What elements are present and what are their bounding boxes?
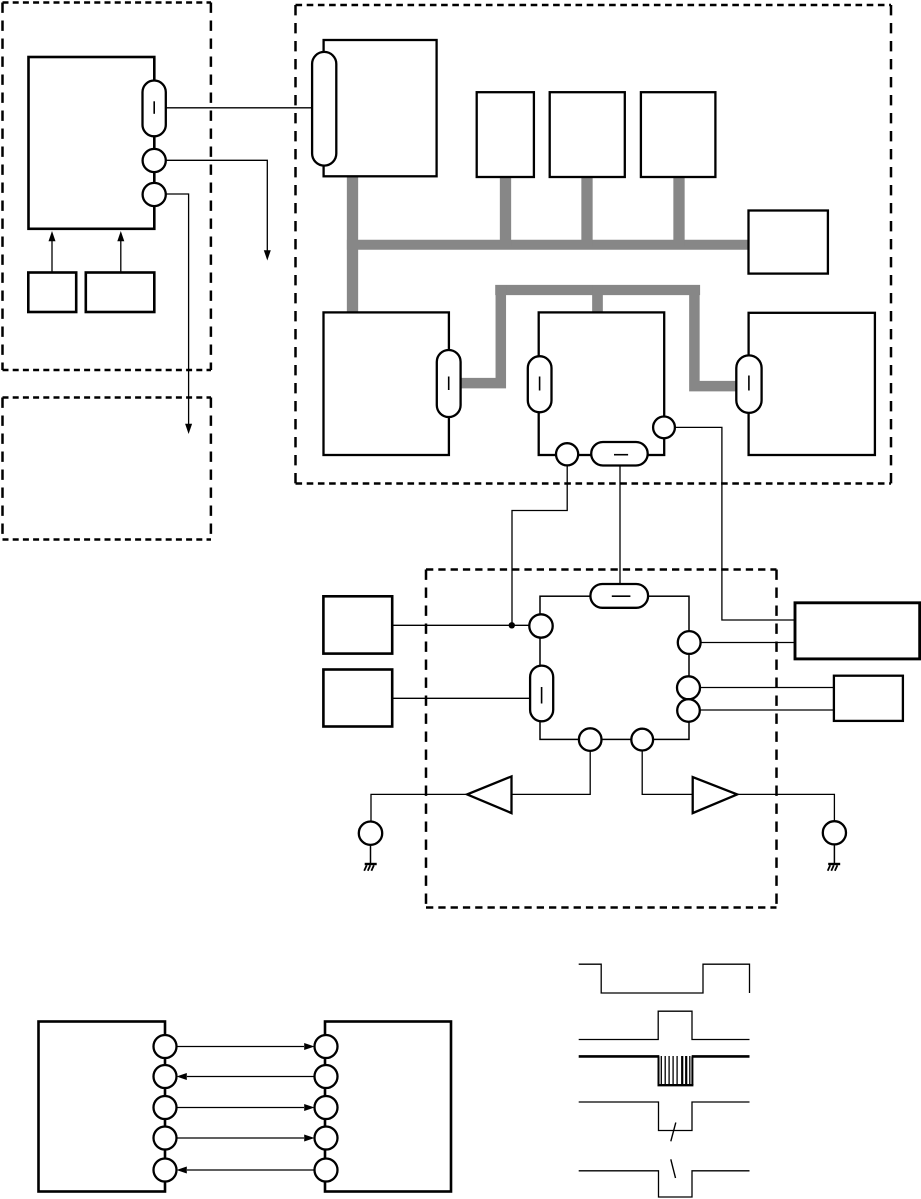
- wire H1b to G left pill: [392, 697, 530, 699]
- port circle G bottom 2: [631, 729, 653, 751]
- port circle J1-5: [154, 1159, 177, 1182]
- wire arrow Q1 to P: [51, 241, 53, 273]
- amplifier left (triangle pointing left): [467, 776, 511, 813]
- wire E right circle to box H2: [675, 427, 795, 620]
- ground stem right: [833, 844, 835, 863]
- ground symbol right: [828, 863, 840, 865]
- bus 2 horizontal (gray): [495, 285, 700, 295]
- wire G right circle2 to box I: [700, 687, 834, 689]
- tick in G top pill: [612, 595, 631, 597]
- ground stem left: [370, 845, 372, 863]
- box E (region 2 lower-middle block): [539, 312, 665, 455]
- waveform 5 slash: [671, 1159, 676, 1178]
- connector pill on P right edge: [143, 81, 166, 137]
- wire left amplifier to left ground circle: [371, 794, 467, 821]
- connector pill on G top edge: [590, 584, 648, 608]
- port circle J1-3: [154, 1096, 177, 1119]
- port circle J2-2: [315, 1065, 338, 1088]
- box G (region 3 central block): [540, 596, 689, 739]
- port circle J1-1: [154, 1035, 177, 1058]
- connector pill on E bottom edge: [591, 442, 648, 466]
- bus stub A to D (gray): [347, 176, 358, 313]
- box H1b: [323, 670, 392, 727]
- wire H1a to G junction: [392, 624, 529, 626]
- signal line 5 (left arrow): [187, 1169, 315, 1171]
- port circle 1 on P right edge: [143, 149, 166, 172]
- waveform 1 (clock): [579, 964, 750, 993]
- wire right amplifier to right ground circle: [737, 794, 834, 821]
- waveform 3 thick hatch bars: [682, 1056, 686, 1084]
- box A (region 2 top block): [324, 40, 437, 176]
- box P (top-left large block): [29, 57, 155, 229]
- amplifier right (triangle pointing right): [693, 777, 738, 813]
- dashed region 3 (middle subsystem boundary): [426, 570, 777, 908]
- box F (region 2 lower-right block): [749, 313, 875, 455]
- tick in D pill: [448, 377, 450, 391]
- wire G bottom circle1 to left amplifier: [512, 751, 590, 795]
- tick in E bottom pill: [614, 454, 628, 456]
- waveform 2 (pulse): [579, 1011, 750, 1039]
- waveform 3 pulse edge left: [659, 1056, 693, 1085]
- signal line 2 (left arrow): [187, 1076, 315, 1078]
- connector pill on E left edge: [528, 356, 552, 412]
- arrowhead right row1: [304, 1043, 314, 1050]
- arrowhead down at (267,260): [264, 250, 271, 260]
- waveform 4 slash: [671, 1123, 676, 1142]
- tick in F pill: [748, 376, 750, 391]
- waveform 3 pulse bottom: [658, 1084, 694, 1086]
- tick in G left pill: [541, 687, 543, 704]
- port circle J1-4: [154, 1127, 177, 1150]
- junction dot: [509, 622, 515, 628]
- connector pill on G left edge: [530, 666, 553, 722]
- waveform 4 (negative pulse with rising slash): [579, 1102, 750, 1131]
- wire G bottom circle2 to right amplifier: [642, 751, 693, 795]
- port circle G right 2: [677, 676, 700, 699]
- tick in E left pill: [539, 377, 541, 391]
- wire P circle2 into region 1b with down arrow: [166, 194, 189, 425]
- wire G right circle1 to box H2: [701, 642, 795, 644]
- wire P pill to A pill: [166, 107, 312, 109]
- ground symbol left: [365, 863, 377, 865]
- signal line 3 (right arrow): [177, 1107, 305, 1109]
- waveform 3 thick data line with negative pulse: [579, 1055, 750, 1058]
- wire G right circle3 to box I: [700, 709, 834, 711]
- signal line 4 (right arrow): [177, 1137, 305, 1139]
- arrowhead up at (52,231): [49, 231, 56, 241]
- port circle on E bottom edge: [556, 443, 578, 465]
- bus stub B1 (gray): [500, 176, 511, 246]
- bus 2 middle stub to E (gray): [592, 285, 603, 318]
- box H1a: [323, 596, 392, 653]
- box B2: [550, 92, 625, 177]
- bus 2 right elbow to F pill (gray): [694, 285, 736, 391]
- port circle G right 3: [677, 699, 700, 722]
- ground circle right: [823, 821, 846, 844]
- waveform 3 hatched transition bars: [661, 1056, 690, 1084]
- signal line 1 (right arrow): [177, 1046, 305, 1048]
- port circle J2-4: [315, 1127, 338, 1150]
- dashed region 2 (top-right subsystem boundary): [296, 5, 892, 484]
- arrowhead right row3: [304, 1104, 314, 1111]
- waveform 5 (negative pulse with falling slash): [579, 1171, 750, 1197]
- wire E bottom pill down to G top pill: [619, 466, 621, 585]
- port circle on E right edge: [653, 417, 675, 439]
- dashed region 1 (top-left subsystem boundary): [3, 3, 212, 371]
- arrowhead up at (120.8,231): [117, 231, 124, 241]
- port circle G right 1: [678, 631, 701, 654]
- box D (region 2 lower-left block): [324, 312, 449, 455]
- bus stub B2 (gray): [581, 176, 592, 246]
- arrowhead left row5: [177, 1167, 187, 1174]
- dashed region 1b (lower-left subsystem boundary): [3, 398, 212, 540]
- connector pill on F left edge: [736, 355, 761, 413]
- box Q2: [86, 273, 155, 313]
- bus 1 horizontal (gray): [347, 240, 749, 250]
- arrowhead down at (188.6,434): [185, 424, 192, 434]
- connector pill on D right edge: [437, 350, 461, 417]
- port circle J2-3: [315, 1096, 338, 1119]
- tick in P pill: [153, 101, 155, 114]
- wire arrow Q2 to P: [120, 241, 122, 273]
- wire E bottom circle to junction: [512, 465, 567, 625]
- port circle J2-5: [315, 1159, 338, 1182]
- box B3: [641, 92, 716, 177]
- wire P circle1 with down arrow: [166, 160, 267, 251]
- box H2 (right output block upper): [795, 603, 920, 659]
- port circle J2-1: [315, 1035, 338, 1058]
- box C (bus1 right terminal): [749, 211, 828, 274]
- port circle G top-left: [529, 614, 552, 637]
- connector pill on A left edge: [312, 52, 336, 166]
- bus 2 left elbow to D pill (gray): [461, 285, 501, 388]
- arrowhead left row2: [177, 1073, 187, 1080]
- box I (right output block lower): [834, 676, 903, 721]
- bus stub B3 (gray): [673, 176, 684, 246]
- box J2 (bottom-right block): [325, 1022, 451, 1192]
- port circle 2 on P right edge: [143, 183, 166, 206]
- box B1: [477, 92, 534, 177]
- arrowhead right row4: [304, 1135, 314, 1142]
- ground circle left: [359, 822, 382, 845]
- box J1 (bottom-left block): [39, 1022, 166, 1192]
- port circle G bottom 1: [579, 728, 602, 751]
- box Q1: [28, 273, 76, 313]
- port circle J1-2: [154, 1065, 177, 1088]
